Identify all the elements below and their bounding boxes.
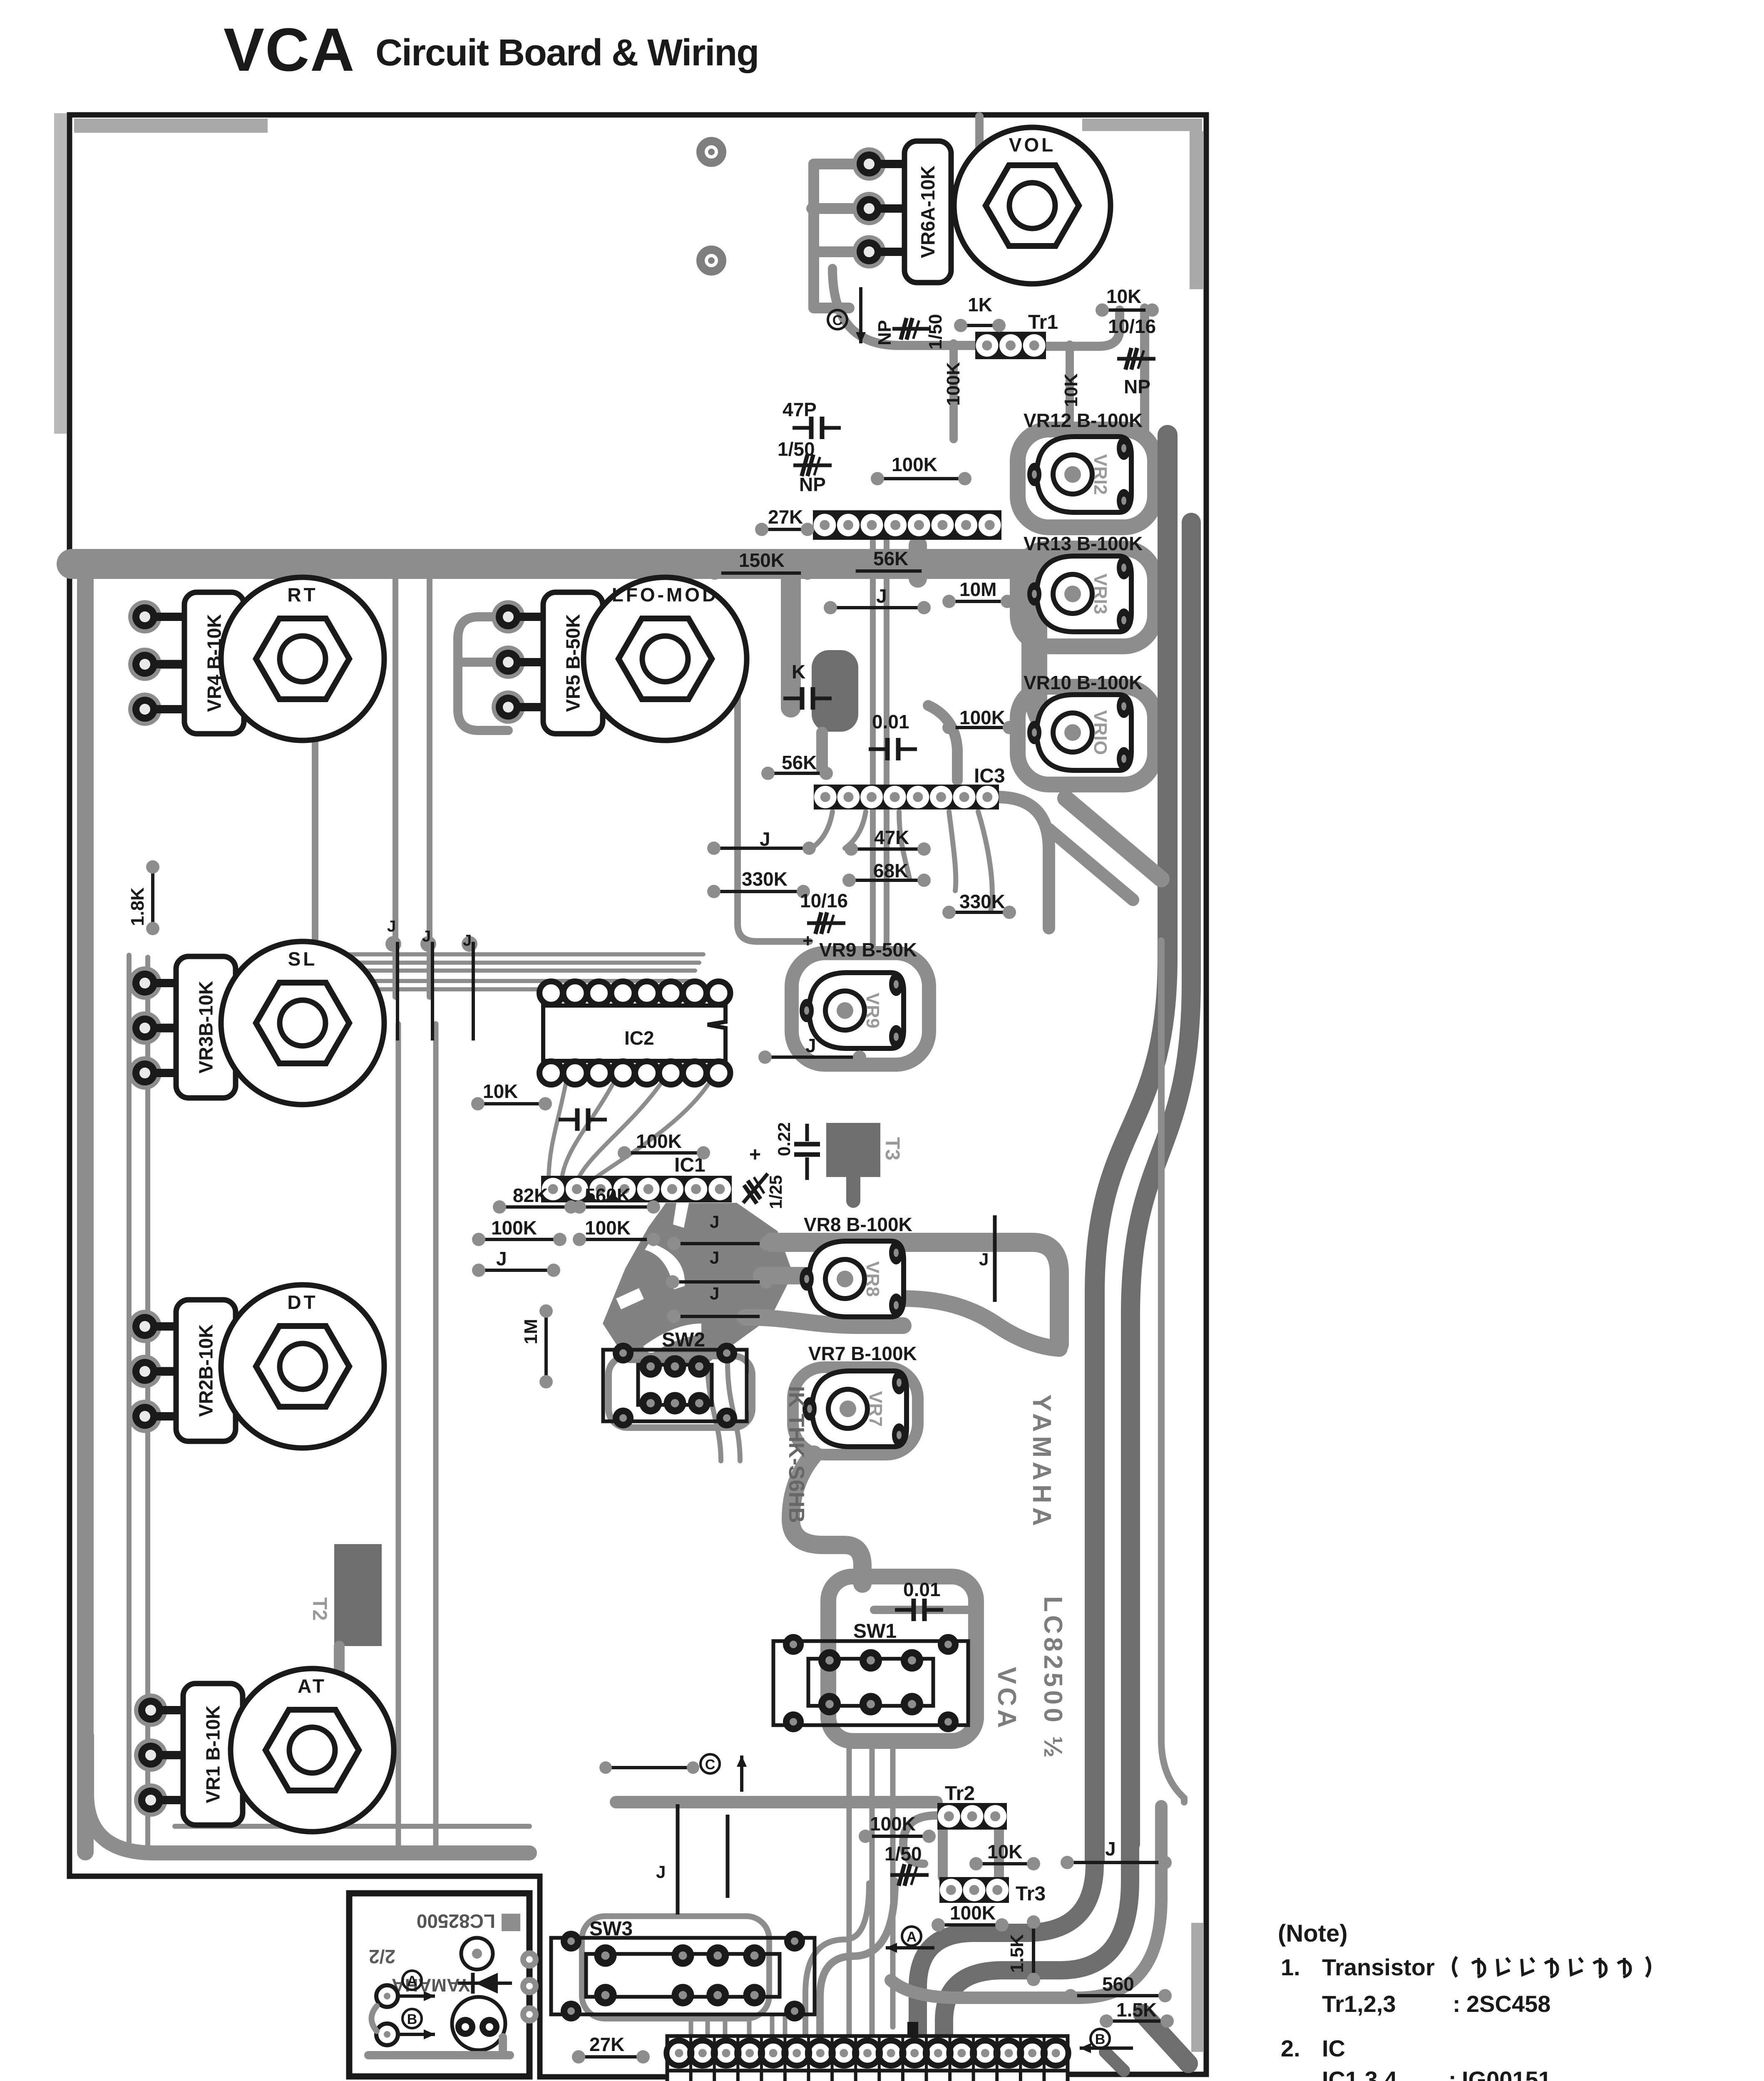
switch SW1 — [773, 1620, 968, 1732]
wire sw3 leader J a — [676, 1804, 680, 1915]
svg-text:56K: 56K — [782, 752, 817, 773]
wire left thin vertical 2 — [145, 957, 150, 1850]
wire mid col to IC3 — [928, 705, 957, 780]
wire diag stub B2 — [1105, 2052, 1124, 2071]
svg-text:IK THK-S6HB: IK THK-S6HB — [784, 1386, 808, 1523]
svg-text:VR4 B-10K: VR4 B-10K — [204, 614, 225, 712]
svg-text:1.5K: 1.5K — [1007, 1934, 1027, 1973]
svg-text:82K: 82K — [513, 1185, 548, 1206]
svg-text:IC3: IC3 — [974, 765, 1005, 787]
svg-text:2/2: 2/2 — [369, 1946, 395, 1967]
wire swoosh 5 — [805, 1883, 869, 2035]
svg-text:2SC458: 2SC458 — [1466, 1991, 1550, 2017]
svg-text:1M: 1M — [521, 1319, 541, 1344]
svg-text:10/16: 10/16 — [1108, 315, 1156, 337]
svg-text:A: A — [907, 1929, 917, 1945]
svg-text:10/16: 10/16 — [800, 890, 848, 911]
wire swoosh 1 — [918, 1736, 1095, 2035]
svg-text:B: B — [407, 2011, 417, 2027]
wire SW3 loop — [582, 1916, 769, 2019]
svg-text:560: 560 — [1102, 1973, 1134, 1995]
wire top band — [72, 549, 1049, 579]
cap 0.22 sym — [805, 1124, 809, 1141]
wire sw3 leader J b — [726, 1815, 730, 1898]
svg-text:56K: 56K — [873, 548, 908, 569]
svg-text:27K: 27K — [768, 506, 803, 528]
connector bump pin11 — [907, 2022, 918, 2037]
wire IC2 bundle — [258, 954, 703, 989]
svg-text:A: A — [407, 1973, 417, 1989]
svg-text:IG00151: IG00151 — [1462, 2066, 1551, 2081]
svg-text:SW3: SW3 — [589, 1918, 633, 1940]
board outer border — [70, 115, 1206, 2077]
svg-text:150K: 150K — [739, 549, 785, 571]
svg-text:1K: 1K — [968, 294, 992, 315]
wire swoosh 4 — [820, 1881, 895, 2035]
wire left edge vertical — [77, 566, 94, 1852]
svg-text:10K: 10K — [987, 1841, 1022, 1862]
svg-text:1/25: 1/25 — [766, 1175, 785, 1209]
wire VR10 diag 1 — [1066, 798, 1161, 879]
svg-text:IC2: IC2 — [624, 1027, 654, 1049]
svg-text:IC: IC — [1322, 2035, 1345, 2061]
wire SW1 to connector drops — [849, 1742, 893, 2035]
svg-text:RT: RT — [287, 584, 318, 606]
wire T3 stem — [846, 1177, 860, 1201]
svg-text:VR8: VR8 — [862, 1261, 883, 1297]
wire top entry — [975, 117, 984, 250]
svg-text:100K: 100K — [959, 707, 1005, 728]
cap tantalum ic1 — [735, 1167, 776, 1210]
switch SW3 — [551, 1918, 815, 2021]
wire left thin vertical 1 — [127, 955, 132, 1850]
wire T2 pad — [334, 1544, 382, 1646]
svg-text:IC1,3,4: IC1,3,4 — [1322, 2066, 1397, 2081]
svg-text:VR12 B-100K: VR12 B-100K — [1024, 410, 1143, 431]
svg-text:NP: NP — [875, 320, 895, 345]
svg-text:100K: 100K — [870, 1813, 916, 1835]
svg-text:10K: 10K — [1106, 286, 1141, 307]
svg-text:100K: 100K — [585, 1217, 631, 1239]
svg-text:27K: 27K — [589, 2034, 624, 2055]
ic IC2 body — [543, 1006, 725, 1061]
wire VR10 diag 2 — [1049, 829, 1133, 900]
wire band right drop — [1021, 576, 1047, 699]
wire VR8 right bottom arm — [903, 1299, 1059, 1348]
svg-text:C: C — [705, 1757, 716, 1773]
wire band stub down x1900 — [781, 576, 801, 708]
wire VR8 arm bottom — [745, 1317, 903, 1326]
svg-text:NP: NP — [1124, 376, 1150, 397]
svg-text:K: K — [792, 661, 805, 683]
wire right band outer — [1095, 435, 1168, 1860]
wire IC3 right curl — [997, 797, 1049, 928]
svg-text:100K: 100K — [636, 1130, 682, 1152]
svg-text:560K: 560K — [585, 1185, 631, 1206]
svg-text:1.5K: 1.5K — [1116, 1999, 1157, 2021]
svg-text:(Note): (Note) — [1278, 1920, 1348, 1947]
wire VR8 arm mid — [762, 1267, 805, 1284]
cap NP top — [892, 318, 931, 340]
potentiometer AT (VR1 B-10K) — [134, 1669, 394, 1832]
wire SW2 drop pair — [708, 1363, 740, 1461]
wire Tr1 right up to 10K — [1046, 310, 1120, 346]
svg-text:SL: SL — [288, 948, 318, 970]
svg-text:T3: T3 — [881, 1137, 903, 1160]
wire right band inner — [1130, 522, 1191, 1844]
svg-text:Tr1: Tr1 — [1028, 311, 1058, 333]
svg-text:VR3B-10K: VR3B-10K — [195, 981, 217, 1073]
svg-text:10K: 10K — [483, 1080, 518, 1102]
sub-board pad A — [376, 1985, 398, 2007]
wire mid vertical b — [427, 579, 432, 997]
wire T2 tail — [334, 1646, 345, 1746]
potentiometer RT (VR4 B-10K) — [128, 577, 384, 740]
svg-text:1.8K: 1.8K — [127, 887, 148, 926]
transistor Tr2 — [937, 1803, 1007, 1830]
potentiometer VOL (VR6A-10K) — [852, 127, 1111, 284]
mark C top — [828, 310, 847, 329]
svg-text:VRI2: VRI2 — [1090, 454, 1111, 495]
svg-text:J: J — [979, 1249, 989, 1269]
svg-text:B: B — [1095, 2031, 1106, 2047]
svg-text::: : — [1453, 1991, 1461, 2017]
sub-board right pads — [520, 1950, 539, 1969]
wire Tr2 Tr3 right link — [994, 1830, 1004, 1877]
svg-text:1/50: 1/50 — [884, 1843, 922, 1865]
svg-text:330K: 330K — [742, 868, 788, 890]
svg-text:+: + — [802, 931, 813, 951]
svg-text:VR9 B-50K: VR9 B-50K — [819, 939, 917, 961]
sub-board arrow A — [398, 1994, 435, 1998]
transistor Tr1 — [975, 332, 1046, 359]
svg-text:47K: 47K — [874, 827, 909, 848]
svg-text:VCA: VCA — [992, 1667, 1021, 1731]
switch SW2 — [603, 1329, 747, 1428]
svg-text:VCA: VCA — [224, 16, 355, 84]
trimmer VR9 — [800, 973, 904, 1048]
wire junction dot c — [462, 936, 477, 952]
mounting hole upper — [701, 141, 722, 163]
svg-text:J: J — [422, 928, 431, 945]
svg-text:10K: 10K — [1061, 373, 1081, 407]
potentiometer LFO-MOD (VR5 B-50K) — [492, 577, 747, 740]
svg-text:J: J — [710, 1248, 719, 1267]
wire AT column vertical 1 — [396, 1024, 401, 1848]
wire IC2 fan — [549, 1082, 710, 1178]
svg-text:Transistor: Transistor — [1322, 1954, 1435, 1980]
svg-text:LC82500 ½: LC82500 ½ — [1039, 1596, 1067, 1761]
sub-board mark B — [402, 2009, 422, 2028]
svg-text:Tr1,2,3: Tr1,2,3 — [1322, 1991, 1396, 2017]
wire LFO wiper down — [738, 628, 810, 941]
wire VOL to Tr1 — [832, 268, 975, 345]
wire ring around VR9 — [792, 953, 929, 1065]
svg-text:J: J — [1105, 1838, 1116, 1860]
svg-text:100K: 100K — [943, 362, 964, 406]
svg-text:VR10 B-100K: VR10 B-100K — [1024, 672, 1143, 693]
ic row IC4 (top, near 27K) — [813, 510, 1001, 540]
wire band drop to VR10 — [1034, 683, 1080, 729]
svg-text:LFO-MOD: LFO-MOD — [612, 584, 719, 606]
svg-text:VRIO: VRIO — [1090, 710, 1111, 755]
wire diag stub B — [1143, 2014, 1188, 2064]
svg-text:VRI3: VRI3 — [1090, 574, 1111, 614]
board border shadow strips — [74, 119, 268, 133]
wire T3 pad — [826, 1123, 880, 1177]
wire band stub down x2205 — [909, 545, 927, 579]
svg-text:J: J — [387, 918, 396, 935]
wire bottom mid band — [616, 1796, 937, 1808]
svg-text:SW1: SW1 — [853, 1620, 897, 1642]
svg-text:J: J — [656, 1862, 666, 1882]
svg-text:VR8 B-100K: VR8 B-100K — [804, 1214, 912, 1235]
svg-text:J: J — [805, 1035, 816, 1056]
svg-text:YAMAHA: YAMAHA — [1027, 1394, 1056, 1530]
sub-board outline — [349, 1893, 529, 2076]
svg-text:+: + — [749, 1144, 761, 1166]
trimmer VR8 — [800, 1241, 904, 1317]
mark B bottom — [1091, 2029, 1110, 2048]
ic IC1 pin row — [541, 1176, 732, 1202]
svg-text:AT: AT — [298, 1675, 327, 1697]
wire ring around VR10 — [1018, 687, 1155, 785]
svg-text:330K: 330K — [959, 891, 1005, 912]
svg-text:100K: 100K — [950, 1902, 996, 1924]
wire Tr2 loop left — [903, 1815, 975, 1864]
cap K ic2 — [559, 1118, 577, 1122]
wire mid blob — [812, 650, 858, 732]
wire junction dot a — [385, 936, 401, 952]
trimmer VR12 — [1027, 437, 1131, 512]
ic IC3 pin row — [814, 785, 999, 810]
wire VOL pads loop — [812, 164, 869, 308]
trimmer VR10 — [1027, 695, 1131, 770]
wire bottom left corner arc outer — [87, 1736, 529, 1853]
svg-text:1.: 1. — [1281, 1954, 1300, 1980]
wire mid vertical pair d — [884, 541, 889, 953]
wire 001 stub — [874, 1606, 970, 1614]
wire 10K res right trace — [1140, 308, 1149, 435]
sub-board diode D — [475, 1973, 498, 1994]
wire IC3 fan — [812, 812, 992, 911]
wire 10K vertical trace — [1066, 345, 1074, 433]
connector pin numbers 1-17 — [667, 2071, 1068, 2081]
svg-text::: : — [1448, 2066, 1456, 2081]
svg-text:C: C — [832, 313, 843, 328]
svg-text:0.01: 0.01 — [872, 711, 909, 733]
svg-text:J: J — [710, 1284, 719, 1303]
svg-text:2.: 2. — [1281, 2035, 1300, 2061]
wire right thin trace — [1161, 941, 1184, 1802]
wire IC1 fan white slots — [645, 1242, 685, 1289]
wire mid vertical a — [393, 579, 398, 997]
svg-text:VR5 B-50K: VR5 B-50K — [562, 614, 584, 712]
wire VR8 arm top — [772, 1242, 1059, 1344]
ic IC2 bottom pads — [539, 1061, 730, 1085]
svg-text:Tr2: Tr2 — [945, 1783, 975, 1805]
wire VR7 down to SW1 — [791, 1455, 862, 1584]
svg-text:VR6A-10K: VR6A-10K — [917, 166, 939, 258]
svg-text:Tr3: Tr3 — [1016, 1883, 1046, 1905]
sub-board gray traces — [368, 2037, 510, 2055]
trimmer VR13 — [1027, 556, 1131, 632]
transistor Tr3 — [939, 1877, 1009, 1903]
sub-board hole small — [461, 1938, 493, 1969]
svg-text:VR2B-10K: VR2B-10K — [195, 1324, 217, 1417]
wire LFO pad loop — [458, 617, 508, 730]
wire SW3 drops — [691, 2016, 785, 2036]
svg-text:NP: NP — [799, 474, 826, 495]
svg-text:DT: DT — [287, 1291, 318, 1313]
wire junction dot b — [420, 936, 436, 952]
wire swoosh 2 — [944, 1736, 1130, 2035]
svg-text:VR9: VR9 — [862, 993, 883, 1028]
svg-text:T2: T2 — [308, 1597, 330, 1621]
svg-text:Circuit Board & Wiring: Circuit Board & Wiring — [375, 32, 758, 74]
svg-text:0.01: 0.01 — [903, 1579, 941, 1600]
svg-text:VOL: VOL — [1009, 134, 1056, 156]
svg-text:J: J — [496, 1248, 507, 1269]
sub-board hole big — [452, 1997, 505, 2050]
sub-board pad B — [376, 2024, 398, 2045]
mark A bottom — [902, 1927, 921, 1946]
svg-text:LC82500: LC82500 — [417, 1910, 495, 1932]
svg-text:68K: 68K — [873, 860, 908, 882]
wire IC1 dark fan — [603, 1203, 793, 1363]
wire AT column vertical 2 — [433, 1024, 439, 1848]
connector pad row — [667, 2036, 1068, 2071]
wire SW2 loop — [609, 1356, 752, 1428]
wire blob tail — [816, 733, 828, 770]
ic IC2 top pads — [539, 981, 730, 1005]
svg-text:1/50: 1/50 — [778, 438, 815, 460]
mounting hole lower — [701, 250, 722, 271]
svg-text:VR1 B-10K: VR1 B-10K — [202, 1705, 224, 1803]
svg-text:J: J — [463, 932, 472, 949]
sub-board mark A — [402, 1971, 422, 1990]
mark C bottom — [701, 1754, 720, 1773]
wire ring around VR13 — [1018, 549, 1155, 646]
svg-text:VR13 B-100K: VR13 B-100K — [1024, 533, 1143, 554]
svg-text:J: J — [710, 1212, 719, 1232]
trimmer VR7 — [802, 1371, 907, 1447]
svg-text:SW2: SW2 — [662, 1329, 705, 1351]
wire bottom left inner line — [175, 1824, 529, 1829]
svg-text:100K: 100K — [491, 1217, 537, 1239]
svg-text:VR7: VR7 — [865, 1391, 886, 1427]
wire SL wiper horiz — [160, 1023, 338, 1033]
potentiometer SL (VR3B-10K) — [128, 941, 384, 1105]
svg-text:10M: 10M — [959, 579, 996, 600]
svg-text:0.22: 0.22 — [774, 1122, 794, 1156]
wire DT wiper horiz — [160, 1367, 275, 1376]
svg-text:1/50: 1/50 — [925, 314, 946, 350]
svg-text:100K: 100K — [892, 454, 937, 475]
wire swoosh 3 — [891, 1806, 1161, 1998]
sub-board arrow B — [398, 2033, 435, 2036]
wire RT wiper down — [312, 691, 318, 999]
wire 100K vertical trace — [949, 343, 958, 439]
potentiometer DT (VR2B-10K) — [128, 1285, 384, 1448]
wire SW1 ring — [828, 1577, 976, 1741]
wire AT horiz — [233, 1738, 331, 1747]
wire Tr2 Tr3 left link — [938, 1830, 948, 1877]
svg-text:VR7 B-100K: VR7 B-100K — [808, 1343, 917, 1364]
svg-text:J: J — [876, 585, 887, 607]
wire VR7 loop — [793, 1367, 918, 1455]
wire RT wiper horiz — [160, 660, 338, 669]
wire ring around VR12 — [1018, 430, 1155, 527]
wire mid vertical pair c — [870, 541, 876, 953]
